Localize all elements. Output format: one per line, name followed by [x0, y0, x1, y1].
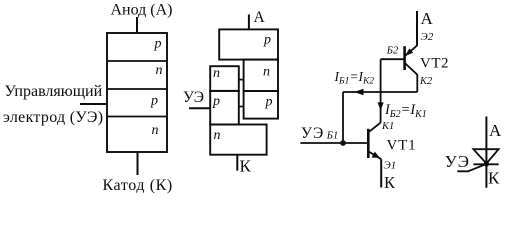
svg-text:К: К [384, 173, 396, 192]
wire: cathode lead of split structure [236, 155, 238, 171]
region p top (emitter of VT2) [219, 29, 278, 59]
wire: corner down to VT1 base [342, 92, 344, 143]
wire: VT1 emitter down to К [380, 159, 382, 187]
svg-text:Анод (А): Анод (А) [111, 1, 173, 18]
svg-text:n: n [213, 66, 220, 81]
VT1 emitter wire with arrow (npn) [369, 152, 382, 160]
VT2 base wire [381, 58, 405, 60]
junction dot at VT1 base [340, 140, 346, 146]
wire: gate lead of split structure [189, 107, 210, 109]
bridge between n regions [239, 79, 244, 81]
transistor VT1 base bar [367, 129, 370, 158]
junction dot at symbol gate [484, 161, 489, 166]
wire: VT2 base to VT1 collector (vertical) [380, 59, 382, 122]
svg-text:УЭ: УЭ [445, 152, 470, 171]
svg-text:К1: К1 [381, 121, 394, 132]
region n bottom (emitter of VT1) [210, 125, 266, 155]
svg-text:Катод (К): Катод (К) [103, 177, 173, 194]
VT2 emitter wire with arrow (pnp) [405, 46, 417, 56]
svg-text:n: n [156, 63, 163, 78]
svg-text:УЭ: УЭ [301, 125, 324, 142]
svg-text:К: К [488, 169, 500, 188]
svg-text:Э1: Э1 [384, 159, 397, 171]
bridge between p regions [239, 106, 244, 108]
wire: gate УЭ to VT1 base [300, 142, 368, 144]
svg-text:К2: К2 [419, 76, 433, 87]
wire: anode lead of split structure [248, 15, 250, 30]
wire: cathode lead of 4-layer structure [137, 152, 139, 175]
svg-text:p: p [212, 94, 220, 109]
wire: gate lead of 4-layer structure [80, 103, 107, 105]
svg-text:n: n [152, 123, 159, 138]
wire: anode lead of 4-layer structure [136, 17, 138, 33]
VT2 collector wire [405, 63, 418, 92]
wire: symbol gate lead [457, 164, 486, 171]
thyristor cathode bar [473, 163, 498, 165]
wire: VT2 collector to VT1 base (horizontal) [343, 91, 417, 93]
transistor VT2 base bar [403, 46, 406, 70]
thyristor triangle [473, 149, 498, 163]
4-layer structure outline [107, 33, 167, 152]
current arrow IБ2 [378, 102, 384, 110]
svg-text:VT1: VT1 [387, 137, 417, 153]
svg-text:УЭ: УЭ [183, 89, 204, 106]
region n right [244, 60, 278, 91]
svg-text:Управляющий: Управляющий [5, 83, 103, 100]
svg-text:p: p [263, 32, 271, 47]
region n left [210, 66, 239, 91]
svg-text:Б2: Б2 [386, 46, 399, 57]
svg-text:p: p [265, 95, 273, 110]
svg-text:электрод (УЭ): электрод (УЭ) [3, 109, 103, 126]
svg-text:n: n [214, 128, 221, 143]
current arrow IБ1 [354, 89, 364, 95]
VT1 collector wire [369, 123, 381, 133]
layer divider 1 [107, 60, 167, 62]
svg-text:А: А [421, 9, 434, 28]
svg-text:p: p [154, 36, 162, 51]
svg-text:А: А [254, 9, 266, 26]
layer divider 2 [107, 88, 167, 90]
layer divider 3 [107, 116, 167, 118]
svg-text:А: А [489, 121, 502, 140]
svg-text:К: К [240, 157, 252, 176]
svg-text:n: n [263, 65, 270, 80]
wire: anode lead to VT2 emitter [416, 11, 418, 46]
svg-text:VT2: VT2 [420, 56, 449, 72]
region p right [244, 91, 278, 119]
svg-text:p: p [150, 94, 158, 109]
wire: thyristor symbol vertical [485, 117, 487, 188]
region p left [210, 91, 239, 125]
svg-text:Э2: Э2 [421, 31, 434, 43]
svg-text:Б1: Б1 [326, 130, 338, 141]
